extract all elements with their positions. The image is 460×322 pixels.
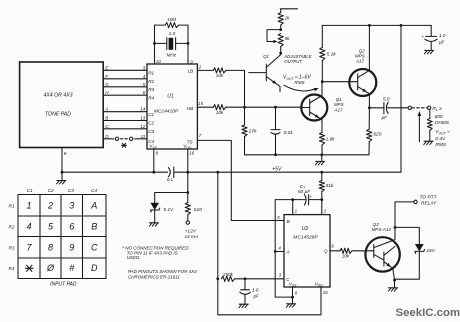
resistor 1k bbox=[278, 9, 290, 30]
svg-text:+12V: +12V bbox=[185, 229, 197, 235]
svg-text:13: 13 bbox=[140, 116, 146, 121]
node mix junction bbox=[243, 106, 246, 109]
node 1.6k at ground rail bbox=[320, 153, 323, 156]
wire bottom rail to U2 pin16 bbox=[218, 279, 321, 315]
svg-text:HB: HB bbox=[187, 106, 193, 111]
resistor 10k (Q3 base) bbox=[330, 248, 366, 258]
svg-text:14: 14 bbox=[140, 107, 146, 112]
svg-text:Q1: Q1 bbox=[263, 54, 269, 59]
svg-text:TONE PAD: TONE PAD bbox=[45, 111, 71, 117]
svg-text:+: + bbox=[422, 35, 425, 40]
svg-text:250k: 250k bbox=[222, 272, 234, 277]
svg-text:2: 2 bbox=[47, 201, 53, 211]
resistor 27k bbox=[242, 107, 257, 155]
svg-text:µF: µF bbox=[253, 293, 260, 298]
svg-text:F: F bbox=[105, 74, 109, 79]
transistor Q1 (driver symbol) bbox=[249, 53, 281, 92]
svg-text:R1: R1 bbox=[148, 71, 154, 76]
svg-text:0.01: 0.01 bbox=[284, 130, 294, 136]
svg-text:A: A bbox=[90, 201, 97, 211]
svg-text:0.4V: 0.4V bbox=[435, 136, 446, 142]
svg-text:OUTPUT: OUTPUT bbox=[284, 59, 302, 64]
svg-text:0.1: 0.1 bbox=[167, 177, 174, 182]
wire F to U1 pin 4 (R2) bbox=[103, 74, 154, 84]
svg-text:Q1: Q1 bbox=[336, 97, 343, 102]
svg-text:TS: TS bbox=[187, 140, 194, 145]
svg-text:4X4 OR 4X3: 4X4 OR 4X3 bbox=[43, 93, 72, 99]
ground at zener bbox=[149, 223, 158, 226]
svg-text:A: A bbox=[104, 107, 108, 112]
wire pin16 node down to zener node bbox=[187, 172, 189, 192]
resistor 510 bbox=[185, 193, 202, 221]
svg-text:R4: R4 bbox=[9, 266, 15, 271]
node 51k at +5V rail bbox=[320, 171, 323, 174]
resistor RL 600 ohms load bbox=[427, 110, 432, 142]
capacitor CT 50uF bbox=[293, 184, 322, 205]
svg-text:RMS: RMS bbox=[294, 80, 305, 85]
svg-text:A17: A17 bbox=[355, 58, 365, 63]
svg-text:600: 600 bbox=[435, 114, 443, 120]
svg-text:K: K bbox=[64, 151, 68, 157]
svg-text:MPS-A13: MPS-A13 bbox=[372, 227, 392, 232]
svg-text:18V: 18V bbox=[426, 248, 435, 254]
svg-text:INPUT PAD: INPUT PAD bbox=[50, 281, 77, 287]
keypad row labels bbox=[9, 204, 15, 272]
svg-text:3: 3 bbox=[143, 65, 146, 70]
wire U2 pin8 to ground bbox=[292, 287, 294, 304]
node 0.01 at ground rail bbox=[274, 153, 277, 156]
svg-text:U2: U2 bbox=[302, 226, 309, 232]
wire LB down to mix node bbox=[244, 70, 246, 107]
svg-text:51k: 51k bbox=[326, 183, 334, 189]
svg-text:H: H bbox=[105, 90, 109, 95]
svg-text:D: D bbox=[105, 134, 109, 139]
svg-text:C1: C1 bbox=[27, 188, 33, 193]
svg-text:C: C bbox=[91, 242, 98, 252]
svg-text:U1: U1 bbox=[167, 94, 174, 100]
svg-text:6: 6 bbox=[143, 90, 146, 95]
svg-text:7: 7 bbox=[199, 133, 202, 138]
capacitor 1.0 uF (timing reset) bbox=[240, 279, 260, 304]
svg-text:1.0: 1.0 bbox=[439, 33, 446, 38]
capacitor 1.0 uF (top right) bbox=[422, 25, 446, 50]
resistor 15M bbox=[155, 17, 189, 28]
node CT right junction bbox=[320, 198, 323, 201]
ground at load bbox=[424, 141, 433, 144]
svg-text:2: 2 bbox=[198, 65, 202, 70]
svg-text:+: + bbox=[310, 194, 313, 199]
node zener/510 junction bbox=[186, 191, 189, 194]
potentiometer 5k (rheostat) bbox=[267, 30, 290, 54]
node pin16 rail bbox=[186, 171, 189, 174]
wire VOUT node to Q2 base bbox=[322, 81, 349, 83]
svg-text:1.6k: 1.6k bbox=[326, 137, 335, 142]
svg-text:+5V: +5V bbox=[272, 166, 282, 172]
svg-text:B: B bbox=[91, 221, 97, 231]
svg-text:C2: C2 bbox=[48, 188, 54, 193]
svg-text:E: E bbox=[105, 65, 109, 70]
svg-text:R2: R2 bbox=[9, 224, 15, 229]
IC U1 MC14410P bbox=[147, 64, 197, 150]
svg-text:5: 5 bbox=[277, 215, 280, 220]
svg-text:C2: C2 bbox=[148, 121, 154, 126]
svg-text:RL ≥: RL ≥ bbox=[432, 106, 442, 112]
svg-text:8: 8 bbox=[156, 150, 159, 155]
svg-text:10k: 10k bbox=[216, 110, 224, 115]
wire supply stub bbox=[281, 8, 298, 10]
node Q3 emitter junction bbox=[393, 279, 396, 282]
svg-text:8: 8 bbox=[295, 290, 298, 295]
svg-text:R3: R3 bbox=[9, 245, 15, 250]
IC U2 MC14528P bbox=[284, 215, 330, 288]
svg-text:MHz: MHz bbox=[167, 53, 177, 58]
svg-text:6: 6 bbox=[69, 221, 74, 231]
svg-text:620: 620 bbox=[373, 132, 381, 138]
svg-text:1.0: 1.0 bbox=[252, 288, 259, 293]
node pin8 junction bbox=[291, 296, 294, 299]
svg-text:D: D bbox=[91, 263, 98, 273]
wire A to U1 pin 14 (C1) bbox=[103, 107, 154, 117]
wire node to U2 pin2 bbox=[321, 200, 323, 215]
svg-text:C: C bbox=[105, 124, 109, 129]
svg-text:1.0: 1.0 bbox=[169, 31, 176, 36]
svg-text:TO PTT: TO PTT bbox=[420, 195, 438, 201]
ground at K bbox=[57, 172, 66, 184]
wire U1 pin16 VDD to +5V rail bbox=[187, 149, 189, 172]
wire A stub bbox=[275, 251, 284, 253]
node A pin junction bbox=[274, 250, 277, 253]
wire C to U1 pin 12 (C3) bbox=[103, 124, 154, 134]
ground at 1.0uF bbox=[424, 50, 433, 53]
terminal +12V bbox=[186, 221, 189, 224]
svg-text:15: 15 bbox=[198, 101, 203, 106]
wire Q3 collector to PTT bbox=[395, 202, 414, 237]
svg-text:3: 3 bbox=[279, 273, 282, 278]
wire E to U1 pin 3 (R1) bbox=[103, 65, 154, 75]
svg-text:µF: µF bbox=[381, 115, 388, 120]
terminal output jack left bbox=[408, 106, 411, 109]
svg-text:Q: Q bbox=[324, 249, 328, 254]
svg-text:27k: 27k bbox=[248, 128, 257, 134]
node Q2 emitter junction bbox=[368, 106, 371, 109]
svg-text:C4: C4 bbox=[91, 188, 97, 193]
resistor 1.6k bbox=[319, 132, 335, 154]
svg-text:G: G bbox=[105, 82, 109, 87]
svg-text:MC14528P: MC14528P bbox=[293, 235, 318, 241]
svg-text:B: B bbox=[105, 116, 108, 121]
svg-text:6: 6 bbox=[331, 244, 334, 249]
svg-text:R2: R2 bbox=[148, 79, 154, 84]
resistor 51k bbox=[319, 172, 334, 199]
node pot top bbox=[279, 28, 282, 31]
terminal output jack right bbox=[427, 106, 430, 109]
wire node to zener top bbox=[155, 193, 188, 203]
svg-text:5.0: 5.0 bbox=[383, 96, 390, 102]
capacitor 0.1 bypass (in-line) bbox=[167, 167, 174, 182]
wire B to U1 pin 13 (C2) bbox=[103, 116, 154, 126]
svg-text:RELAY: RELAY bbox=[421, 201, 437, 207]
svg-text:4: 4 bbox=[26, 221, 31, 231]
wire CT node to A pin and VSS bbox=[275, 200, 293, 298]
node VOUT junction bbox=[321, 80, 324, 83]
node pin8 rail bbox=[152, 171, 155, 174]
ground at Q3 bbox=[388, 288, 397, 291]
node 1.0uF tap bbox=[244, 277, 247, 280]
wire emitter to ground bbox=[394, 280, 396, 288]
wire pin10 to crystal bbox=[154, 25, 156, 64]
svg-text:SeekIC.com: SeekIC.com bbox=[396, 307, 460, 319]
arrow from Vout label to Q1 collector node bbox=[284, 85, 319, 91]
node Q2 collector at top rail bbox=[368, 24, 371, 27]
node 250k branch at +5V rail bbox=[216, 171, 219, 174]
wire G to U1 pin 5 (R3) bbox=[103, 82, 154, 92]
ground symbol on analog rail bbox=[315, 155, 324, 165]
svg-text:11: 11 bbox=[141, 134, 146, 139]
keypad keys bbox=[26, 201, 98, 274]
svg-text:1k: 1k bbox=[285, 16, 291, 21]
svg-text:LB: LB bbox=[188, 69, 194, 74]
svg-text:Ø: Ø bbox=[46, 263, 55, 273]
svg-text:µF: µF bbox=[439, 39, 446, 44]
svg-text:4: 4 bbox=[143, 74, 146, 79]
node K junction bbox=[61, 171, 64, 174]
note no connection bbox=[122, 246, 189, 260]
keypad star key bbox=[26, 265, 34, 271]
svg-text:CHROMERICS ER-21611: CHROMERICS ER-21611 bbox=[128, 274, 180, 279]
svg-text:5.1k: 5.1k bbox=[327, 51, 337, 57]
wire right rail down to +5V rail bbox=[400, 25, 402, 172]
resistor 10k (HB) bbox=[197, 105, 244, 115]
svg-text:MPS: MPS bbox=[334, 102, 344, 107]
svg-text:A: A bbox=[286, 250, 290, 255]
svg-text:10k: 10k bbox=[342, 253, 350, 258]
svg-text:10: 10 bbox=[156, 59, 161, 64]
wire K from tone pad bbox=[62, 148, 68, 173]
node zener branch bbox=[394, 226, 397, 229]
svg-text:R3: R3 bbox=[148, 87, 154, 92]
svg-text:RMS: RMS bbox=[435, 142, 446, 148]
ground at U2 pin8 bbox=[286, 304, 295, 307]
wire CT left to U2 pin1 bbox=[292, 200, 294, 215]
svg-text:14 mA: 14 mA bbox=[184, 234, 198, 240]
svg-text:USED.: USED. bbox=[127, 255, 141, 260]
wire dashed output link bbox=[412, 107, 427, 109]
svg-text:3: 3 bbox=[69, 201, 74, 211]
node pot bottom / adjustable output bbox=[279, 52, 282, 55]
node right rail at top rail bbox=[400, 24, 403, 27]
wire zener branch bbox=[395, 227, 419, 243]
input pad keypad grid bbox=[18, 195, 106, 279]
svg-text:5: 5 bbox=[143, 82, 146, 87]
svg-text:OHMS: OHMS bbox=[435, 120, 450, 126]
svg-text:510: 510 bbox=[194, 207, 202, 213]
svg-text:1: 1 bbox=[26, 201, 31, 211]
node 250k junction bbox=[216, 277, 219, 280]
svg-text:#: # bbox=[69, 263, 75, 273]
zener diode 18V bbox=[395, 244, 436, 279]
svg-text:C3: C3 bbox=[148, 129, 154, 134]
svg-text:12: 12 bbox=[140, 124, 146, 129]
svg-text:2: 2 bbox=[323, 208, 327, 213]
resistor 10k (LB) bbox=[197, 68, 244, 78]
resistor 620 bbox=[367, 108, 382, 155]
node CT left junction bbox=[291, 198, 294, 201]
wire +V top rail bbox=[322, 24, 431, 26]
capacitor 0.01 bbox=[271, 107, 293, 155]
svg-text:C3: C3 bbox=[68, 188, 74, 193]
svg-text:5k: 5k bbox=[285, 36, 291, 41]
svg-text:10k: 10k bbox=[216, 73, 224, 78]
wire analog ground rail bbox=[245, 154, 370, 156]
node crystal left bbox=[153, 42, 156, 45]
note pad pinouts bbox=[128, 269, 197, 279]
resistor 250k bbox=[221, 272, 245, 281]
svg-text:5.1V: 5.1V bbox=[163, 207, 174, 213]
wire U1 pin8 VSS to ground rail bbox=[153, 149, 155, 172]
wire 250k node to U2 pin3 C bbox=[245, 278, 284, 280]
svg-text:16: 16 bbox=[189, 150, 194, 155]
svg-text:7: 7 bbox=[26, 242, 32, 252]
svg-text:8: 8 bbox=[48, 242, 53, 252]
svg-text:9: 9 bbox=[69, 242, 74, 252]
transistor Q2 MPS A17 bbox=[349, 25, 376, 107]
tone pad block bbox=[20, 62, 104, 148]
svg-text:5: 5 bbox=[48, 221, 54, 231]
svg-text:VOUT ≈: VOUT ≈ bbox=[435, 129, 450, 135]
svg-text:B: B bbox=[287, 219, 290, 224]
svg-text:MC14410P: MC14410P bbox=[154, 108, 179, 114]
arrow output level bbox=[418, 111, 422, 142]
terminal to PTT relay bbox=[414, 200, 417, 203]
wire mix node to Q1 base bbox=[245, 106, 302, 108]
wire pin9 to crystal bbox=[187, 25, 189, 64]
resistor 5.1k bbox=[320, 25, 337, 81]
node crystal right bbox=[187, 42, 190, 45]
svg-text:16: 16 bbox=[323, 290, 328, 295]
zener diode D1 5.1V bbox=[150, 203, 174, 223]
capacitor 5.0 uF output bbox=[369, 96, 408, 120]
svg-text:4: 4 bbox=[278, 245, 281, 250]
wire ground rail left segment bbox=[62, 171, 168, 173]
wire H to U1 pin 6 (R4) bbox=[103, 90, 154, 100]
keypad column labels bbox=[27, 188, 98, 193]
crystal Y1 1.0 MHz bbox=[155, 31, 189, 58]
svg-text:R1: R1 bbox=[9, 204, 15, 209]
svg-text:A17: A17 bbox=[333, 108, 343, 113]
wire D to U1 pin 11 (C4) with open jumper bbox=[103, 134, 154, 148]
wire U1 TS pin7 to U2 pin5 B bbox=[197, 140, 284, 220]
svg-text:15M: 15M bbox=[167, 17, 176, 22]
node 0.01 tap bbox=[274, 106, 277, 109]
wire +5V down to 250k node bbox=[217, 172, 219, 279]
transistor Q3 MPS-A13 darlington bbox=[365, 222, 399, 280]
svg-text:R4: R4 bbox=[148, 95, 154, 100]
svg-text:1: 1 bbox=[295, 208, 298, 213]
transistor Q1 MPS A17 bbox=[301, 82, 343, 133]
wire +5V rail segment bbox=[175, 171, 401, 173]
ground at 1.0uF timing bbox=[239, 304, 248, 307]
